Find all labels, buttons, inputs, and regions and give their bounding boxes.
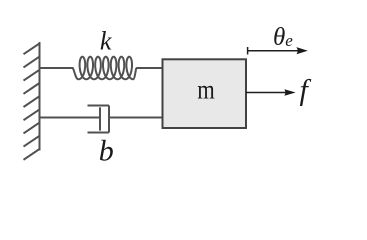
node tick: [247, 47, 249, 55]
svg-text:θe: θe: [273, 24, 293, 51]
svg-text:b: b: [99, 135, 114, 168]
svg-text:m: m: [197, 75, 215, 105]
mass m: [163, 59, 247, 128]
arrow f: [246, 92, 287, 94]
wire: [109, 117, 163, 119]
damper b: [88, 106, 110, 133]
wire: [40, 67, 74, 69]
wall: [24, 42, 40, 160]
svg-text:k: k: [100, 26, 112, 55]
svg-text:f: f: [300, 74, 312, 107]
spring k: [73, 57, 137, 80]
wire: [40, 117, 101, 119]
arrow theta_e: [248, 50, 299, 52]
wire: [136, 67, 162, 69]
